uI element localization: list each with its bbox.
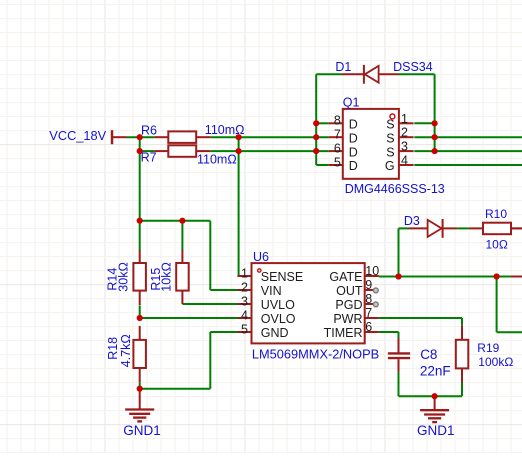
svg-text:1: 1 bbox=[241, 267, 248, 281]
svg-text:3: 3 bbox=[241, 295, 248, 309]
svg-text:22nF: 22nF bbox=[420, 363, 451, 378]
svg-text:110mΩ: 110mΩ bbox=[197, 152, 237, 166]
svg-text:OUT: OUT bbox=[336, 284, 363, 298]
svg-text:VCC_18V: VCC_18V bbox=[49, 128, 106, 143]
svg-text:Q1: Q1 bbox=[343, 95, 360, 109]
svg-text:GND1: GND1 bbox=[417, 423, 455, 438]
svg-text:10: 10 bbox=[365, 264, 379, 278]
svg-text:4: 4 bbox=[241, 309, 248, 323]
svg-text:PWR: PWR bbox=[333, 312, 362, 326]
svg-text:OVLO: OVLO bbox=[261, 312, 296, 326]
svg-text:3: 3 bbox=[401, 140, 408, 154]
svg-text:5: 5 bbox=[334, 155, 341, 169]
svg-text:S: S bbox=[386, 145, 394, 159]
svg-text:SENSE: SENSE bbox=[261, 270, 303, 284]
svg-text:UVLO: UVLO bbox=[261, 298, 295, 312]
svg-text:PGD: PGD bbox=[335, 298, 362, 312]
svg-text:TIMER: TIMER bbox=[324, 326, 363, 340]
svg-text:2: 2 bbox=[401, 126, 408, 140]
svg-text:R6: R6 bbox=[141, 124, 157, 138]
svg-text:D: D bbox=[349, 118, 358, 132]
svg-text:D3: D3 bbox=[404, 214, 420, 228]
svg-text:10Ω: 10Ω bbox=[486, 237, 508, 251]
svg-text:VIN: VIN bbox=[261, 284, 282, 298]
svg-text:8: 8 bbox=[365, 292, 372, 306]
svg-text:C8: C8 bbox=[420, 347, 437, 362]
svg-text:GND: GND bbox=[261, 326, 289, 340]
svg-text:4.7kΩ: 4.7kΩ bbox=[119, 334, 133, 367]
svg-text:DSS34: DSS34 bbox=[393, 60, 433, 74]
svg-text:D: D bbox=[349, 145, 358, 159]
svg-text:6: 6 bbox=[334, 142, 341, 156]
svg-text:D1: D1 bbox=[335, 60, 351, 74]
svg-text:7: 7 bbox=[334, 128, 341, 142]
svg-text:R10: R10 bbox=[485, 207, 507, 221]
svg-text:GND1: GND1 bbox=[123, 423, 161, 438]
svg-text:R19: R19 bbox=[477, 341, 499, 355]
svg-text:S: S bbox=[386, 131, 394, 145]
svg-text:30kΩ: 30kΩ bbox=[117, 262, 131, 292]
svg-text:9: 9 bbox=[365, 278, 372, 292]
svg-text:GATE: GATE bbox=[329, 270, 362, 284]
svg-text:D: D bbox=[349, 159, 358, 173]
svg-text:10kΩ: 10kΩ bbox=[159, 262, 173, 292]
svg-text:R7: R7 bbox=[141, 150, 157, 164]
svg-text:1: 1 bbox=[401, 112, 408, 126]
svg-text:110mΩ: 110mΩ bbox=[205, 123, 245, 137]
svg-text:U6: U6 bbox=[253, 250, 269, 264]
svg-text:G: G bbox=[385, 159, 395, 173]
svg-text:2: 2 bbox=[241, 281, 248, 295]
svg-text:5: 5 bbox=[241, 323, 248, 337]
svg-text:D: D bbox=[349, 131, 358, 145]
svg-text:LM5069MMX-2/NOPB: LM5069MMX-2/NOPB bbox=[252, 346, 379, 361]
svg-text:DMG4466SSS-13: DMG4466SSS-13 bbox=[345, 182, 445, 196]
svg-text:4: 4 bbox=[401, 154, 408, 168]
svg-text:6: 6 bbox=[365, 320, 372, 334]
svg-text:S: S bbox=[386, 118, 394, 132]
svg-text:R18: R18 bbox=[106, 337, 120, 360]
svg-text:8: 8 bbox=[334, 114, 341, 128]
svg-text:7: 7 bbox=[365, 306, 372, 320]
svg-text:100kΩ: 100kΩ bbox=[478, 355, 513, 369]
